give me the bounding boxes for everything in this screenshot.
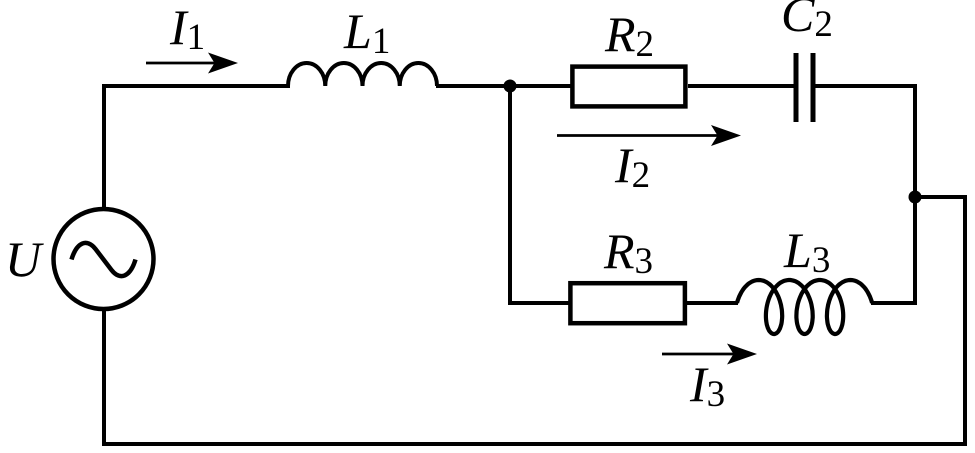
node B junction dot <box>909 191 922 204</box>
label U <box>5 234 41 284</box>
inductor L1 <box>288 63 437 86</box>
source U sine wave <box>72 243 136 276</box>
label L1 <box>344 6 390 56</box>
node A junction dot <box>504 80 517 93</box>
capacitor C2 right plate <box>811 53 816 122</box>
wire bottom horizontal <box>102 442 967 446</box>
current arrow I1 head <box>208 53 238 74</box>
label L3 <box>784 225 830 275</box>
label I2 <box>615 140 650 190</box>
wire node A down to R3 <box>508 301 571 305</box>
wire C2 to right <box>815 84 917 88</box>
wire L3 to right <box>871 301 917 305</box>
wire top horizontal left <box>102 84 290 88</box>
wire R2 to C2 <box>688 84 794 88</box>
wire right inner vertical <box>913 84 917 305</box>
resistor R2 <box>572 67 685 107</box>
wire R3 to L3 <box>686 301 738 305</box>
wire L1 to R2 <box>436 84 572 88</box>
wire bottom-left vertical <box>102 307 106 446</box>
wire branch vertical at node A <box>508 86 512 305</box>
inductor L3 <box>737 280 872 334</box>
label C2 <box>781 0 833 39</box>
current arrow I3 shaft <box>662 353 734 356</box>
current arrow I1 shaft <box>146 62 215 65</box>
label R3 <box>604 226 653 276</box>
source U circle <box>54 209 154 309</box>
wire outer right vertical <box>963 195 967 446</box>
resistor R3 <box>570 283 685 323</box>
label I3 <box>690 359 725 409</box>
current arrow I3 head <box>727 344 757 365</box>
wire top-left vertical <box>102 86 106 211</box>
current arrow I2 shaft <box>557 134 718 137</box>
wire node B to outer right <box>913 195 967 199</box>
label I1 <box>170 2 205 52</box>
label R2 <box>605 9 654 59</box>
capacitor C2 left plate <box>794 53 799 122</box>
current arrow I2 head <box>711 125 741 146</box>
